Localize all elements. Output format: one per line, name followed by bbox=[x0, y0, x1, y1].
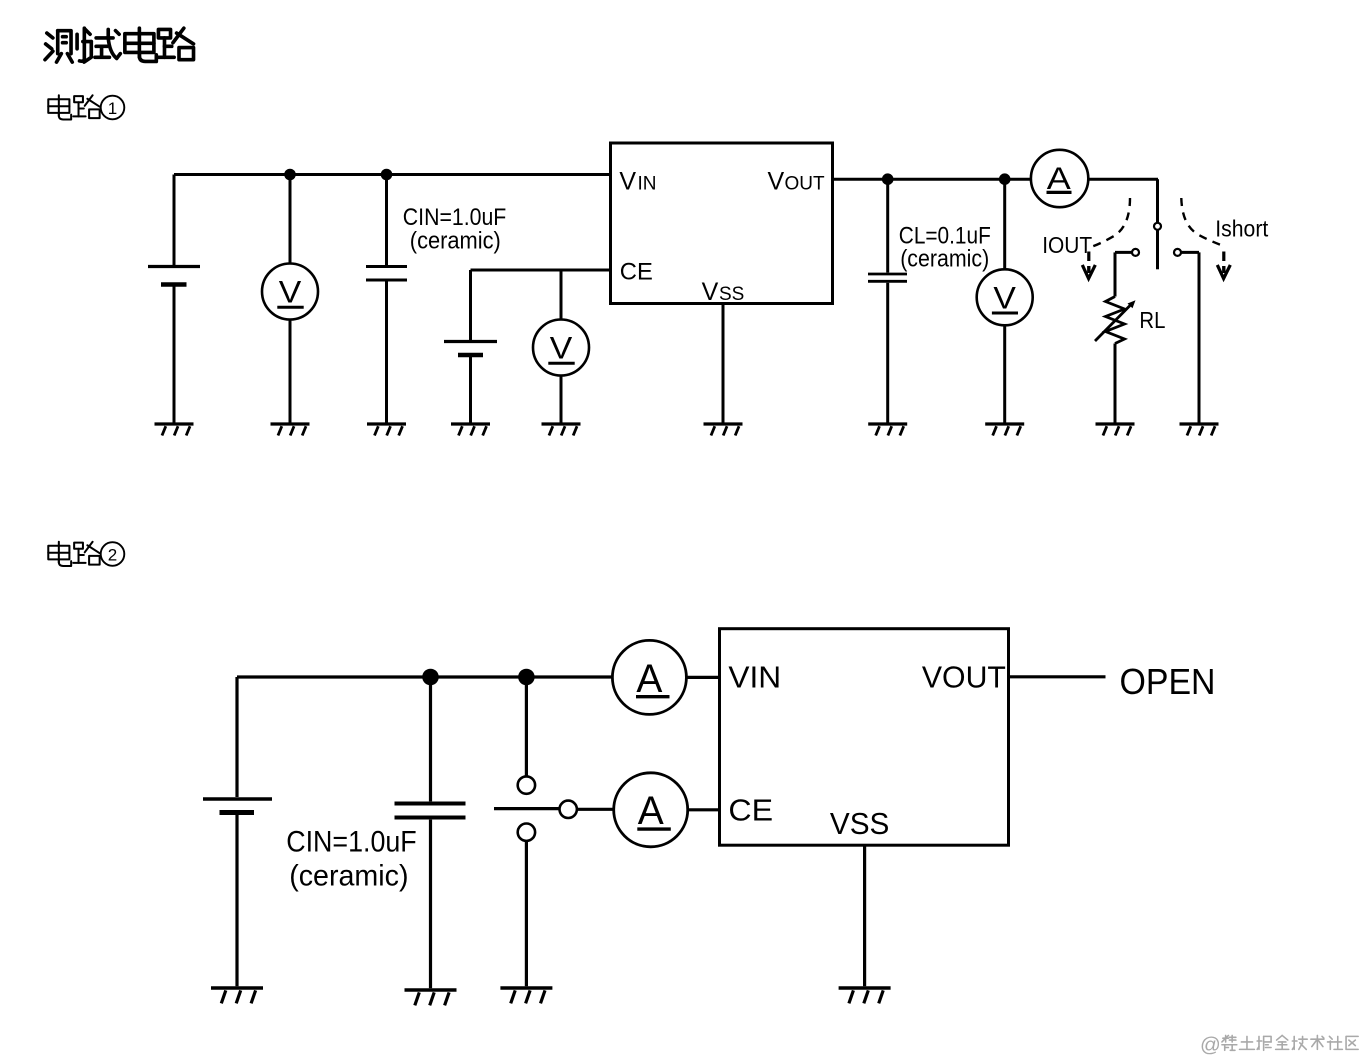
svg-text:OPEN: OPEN bbox=[1120, 661, 1216, 702]
svg-text:V: V bbox=[702, 278, 719, 306]
capacitor CL bbox=[868, 179, 907, 422]
wire VSS U1 bbox=[722, 304, 725, 423]
wire VIN rail bbox=[174, 173, 611, 176]
svg-text:A: A bbox=[636, 657, 662, 701]
node rail2 junction 2 bbox=[518, 669, 535, 686]
svg-text:(ceramic): (ceramic) bbox=[410, 227, 501, 254]
voltmeter V1 bbox=[262, 175, 318, 320]
ground CL bbox=[868, 424, 907, 436]
battery B2 bbox=[444, 270, 497, 423]
svg-text:A: A bbox=[638, 789, 664, 833]
wire VSS U2 bbox=[863, 845, 866, 986]
svg-text:IN: IN bbox=[638, 173, 657, 194]
label OPEN bbox=[1120, 661, 1216, 702]
ground Ishort bbox=[1180, 424, 1219, 436]
ground V1 bbox=[271, 424, 310, 436]
pin label VIN U2 bbox=[728, 660, 781, 695]
wire RL to ground bbox=[1114, 344, 1117, 423]
pin label VIN U1 bbox=[619, 167, 656, 195]
wire V1 to ground bbox=[289, 320, 292, 423]
svg-text:1: 1 bbox=[108, 99, 117, 118]
pin label VSS U2 bbox=[830, 806, 890, 841]
wire VOUT bbox=[833, 178, 1031, 181]
svg-text:(ceramic): (ceramic) bbox=[289, 860, 408, 893]
ground V2 bbox=[542, 424, 581, 436]
svg-text:VOUT: VOUT bbox=[922, 660, 1006, 695]
ground CIN 2 bbox=[405, 990, 457, 1005]
ammeter A2 bbox=[612, 640, 686, 714]
capacitor CIN 2 bbox=[395, 677, 466, 988]
value label (ceramic) 1 bbox=[410, 227, 501, 254]
svg-text:VSS: VSS bbox=[830, 806, 890, 841]
arrow IOUT bbox=[1082, 198, 1130, 279]
svg-text:@: @ bbox=[1200, 1034, 1221, 1057]
value label CIN=1.0uF 2 bbox=[286, 826, 417, 859]
switch contact IOUT bbox=[1115, 249, 1139, 297]
wire VIN rail 2 bbox=[237, 675, 612, 678]
ground B3 bbox=[211, 988, 263, 1003]
svg-text:(ceramic): (ceramic) bbox=[900, 246, 989, 273]
node rail2 junction 1 bbox=[422, 669, 439, 686]
svg-text:2: 2 bbox=[108, 546, 117, 565]
label 电路② bbox=[48, 542, 124, 566]
ground B1 bbox=[155, 424, 194, 436]
value label (ceramic) 2 bbox=[900, 246, 989, 273]
value label CIN=1.0uF bbox=[403, 204, 507, 231]
wire A2 to U2 bbox=[686, 676, 719, 679]
battery B1 bbox=[148, 175, 200, 423]
ground VSS U1 bbox=[704, 424, 743, 436]
svg-text:CE: CE bbox=[620, 258, 653, 285]
svg-text:V: V bbox=[550, 330, 573, 366]
node VOUT junction 1 bbox=[882, 173, 894, 185]
value label (ceramic) 3 bbox=[289, 860, 408, 893]
wire S2 to A2 bbox=[577, 808, 614, 811]
svg-text:VIN: VIN bbox=[728, 660, 781, 695]
svg-text:OUT: OUT bbox=[785, 174, 826, 195]
wire CE bbox=[471, 269, 611, 272]
svg-text:RL: RL bbox=[1139, 307, 1165, 333]
label Ishort bbox=[1215, 215, 1269, 241]
capacitor CIN bbox=[366, 175, 407, 423]
node rail junction 2 bbox=[381, 169, 393, 181]
svg-text:SS: SS bbox=[719, 284, 744, 305]
ground B2 bbox=[451, 424, 490, 436]
label 电路① bbox=[48, 95, 124, 119]
IC U1 bbox=[611, 143, 833, 304]
svg-text:CIN=1.0uF: CIN=1.0uF bbox=[286, 826, 417, 859]
ground S2 bbox=[500, 988, 552, 1003]
switch blade S1 bbox=[1154, 223, 1161, 269]
svg-text:CE: CE bbox=[728, 792, 773, 827]
wire V2 to ground bbox=[560, 376, 563, 423]
svg-text:V: V bbox=[993, 279, 1016, 315]
svg-text:IOUT: IOUT bbox=[1042, 232, 1092, 258]
watermark @稀土掘金技术社区 bbox=[1200, 1034, 1358, 1057]
svg-text:A: A bbox=[1047, 160, 1071, 196]
battery B3 bbox=[203, 677, 272, 986]
wire V3 to ground bbox=[1003, 325, 1006, 422]
svg-text:V: V bbox=[619, 167, 636, 195]
pin label CE U2 bbox=[728, 792, 773, 827]
pin label VOUT U1 bbox=[768, 168, 826, 196]
switch S2 bbox=[494, 677, 577, 986]
node rail junction 1 bbox=[284, 169, 296, 181]
ground V3 bbox=[985, 424, 1024, 436]
pin label VOUT U2 bbox=[922, 660, 1006, 695]
IC U2 bbox=[720, 629, 1009, 846]
value label CL=0.1uF bbox=[899, 222, 991, 249]
label IOUT bbox=[1042, 232, 1092, 258]
ground VSS U2 bbox=[839, 988, 891, 1003]
svg-text:Ishort: Ishort bbox=[1215, 215, 1269, 241]
resistor RL bbox=[1095, 297, 1136, 344]
title 测试电路 bbox=[45, 28, 194, 62]
pin label VSS U1 bbox=[702, 278, 745, 306]
svg-text:V: V bbox=[279, 274, 302, 310]
ammeter A1 bbox=[1031, 150, 1088, 207]
pin label CE U1 bbox=[620, 258, 653, 285]
voltmeter V2 bbox=[533, 270, 589, 376]
ground CIN bbox=[367, 424, 406, 436]
svg-text:V: V bbox=[768, 168, 785, 196]
wire VOUT 2 bbox=[1009, 675, 1106, 678]
node VOUT junction 2 bbox=[999, 173, 1011, 185]
voltmeter V3 bbox=[977, 179, 1033, 325]
arrow Ishort bbox=[1181, 198, 1230, 279]
switch contact Ishort bbox=[1174, 249, 1199, 423]
wire A1 to switch bbox=[1088, 179, 1158, 223]
ammeter A3 bbox=[614, 773, 688, 847]
ground RL bbox=[1096, 424, 1135, 436]
wire A3 to U2 bbox=[688, 808, 720, 811]
label RL bbox=[1139, 307, 1165, 333]
